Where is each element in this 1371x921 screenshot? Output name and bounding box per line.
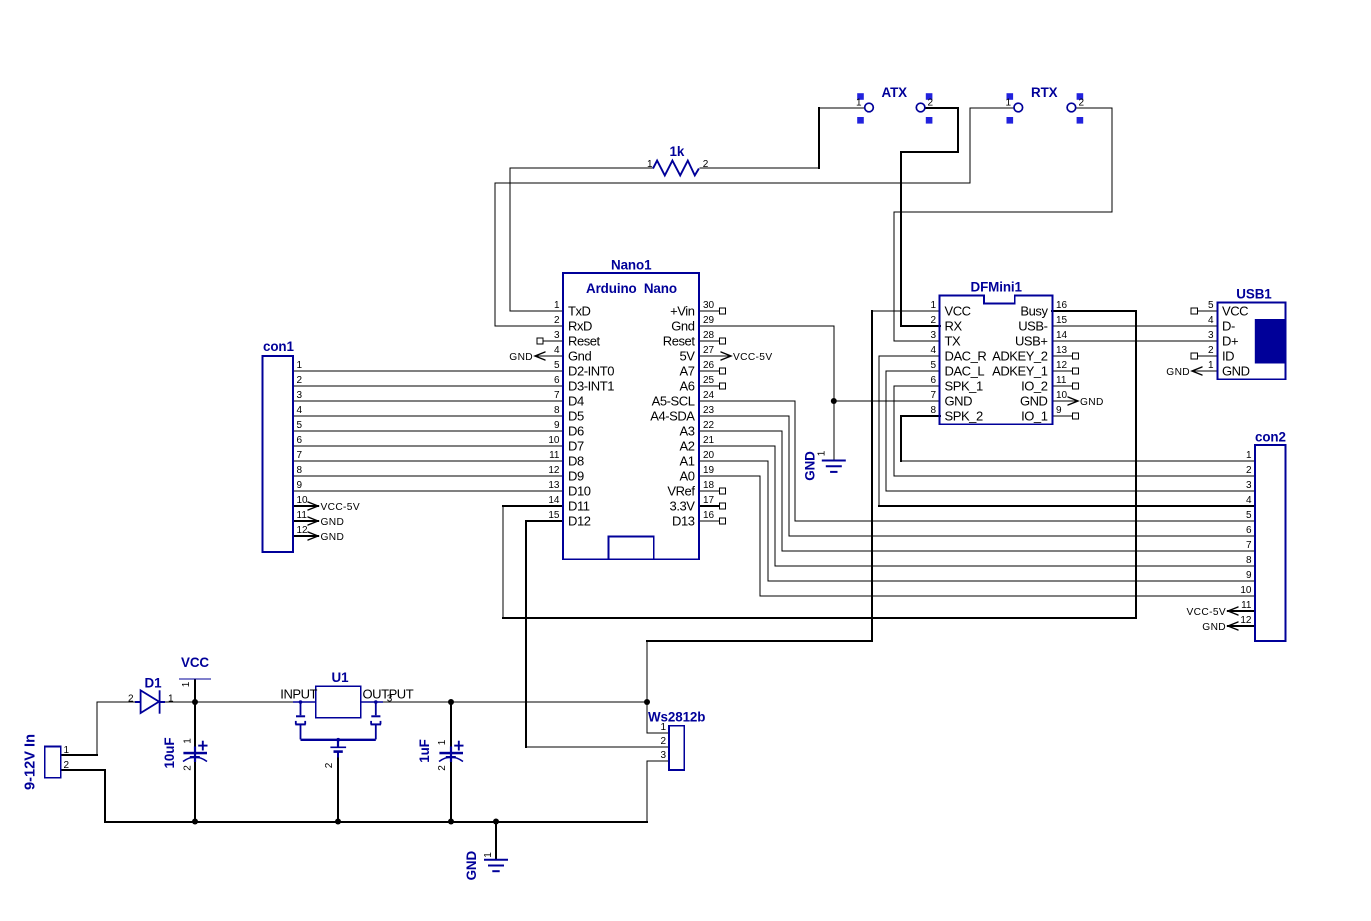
svg-text:GND: GND — [1202, 622, 1226, 633]
svg-text:DAC_R: DAC_R — [945, 349, 987, 364]
svg-text:7: 7 — [554, 390, 560, 401]
svg-text:2: 2 — [128, 693, 134, 704]
svg-text:11: 11 — [297, 510, 308, 521]
svg-text:2: 2 — [297, 375, 303, 386]
svg-text:VRef: VRef — [667, 484, 695, 499]
svg-text:10: 10 — [1240, 585, 1252, 596]
svg-text:SPK_1: SPK_1 — [945, 379, 983, 394]
svg-text:10uF: 10uF — [162, 738, 177, 769]
svg-text:10: 10 — [297, 495, 309, 506]
svg-text:USB+: USB+ — [1015, 334, 1048, 349]
svg-text:DFMini1: DFMini1 — [971, 280, 1023, 295]
svg-text:13: 13 — [1056, 345, 1068, 356]
svg-text:10: 10 — [1056, 390, 1068, 401]
svg-text:6: 6 — [554, 375, 560, 386]
svg-text:5: 5 — [1246, 510, 1252, 521]
svg-text:DAC_L: DAC_L — [945, 364, 985, 379]
svg-text:5: 5 — [930, 360, 936, 371]
svg-text:A1: A1 — [679, 454, 694, 469]
svg-text:2: 2 — [183, 765, 194, 771]
svg-text:25: 25 — [703, 375, 715, 386]
svg-text:GND: GND — [321, 517, 345, 528]
svg-text:Ws2812b: Ws2812b — [648, 710, 705, 725]
svg-text:1: 1 — [1246, 450, 1252, 461]
svg-text:15: 15 — [1056, 315, 1068, 326]
svg-text:28: 28 — [703, 330, 715, 341]
svg-text:3: 3 — [1208, 330, 1214, 341]
svg-text:1: 1 — [437, 739, 448, 745]
svg-text:GND: GND — [1020, 394, 1048, 409]
svg-text:20: 20 — [703, 450, 715, 461]
svg-text:GND: GND — [1080, 397, 1104, 408]
svg-text:con2: con2 — [1255, 430, 1286, 445]
svg-text:21: 21 — [703, 435, 715, 446]
svg-text:GND: GND — [321, 532, 345, 543]
svg-text:2: 2 — [928, 98, 934, 109]
svg-text:1: 1 — [297, 360, 303, 371]
svg-text:con1: con1 — [263, 339, 295, 354]
svg-text:1: 1 — [64, 745, 70, 756]
svg-text:1: 1 — [817, 450, 828, 456]
svg-text:22: 22 — [703, 420, 715, 431]
svg-text:ADKEY_1: ADKEY_1 — [992, 364, 1048, 379]
svg-text:VCC: VCC — [945, 304, 971, 319]
svg-text:D2-INT0: D2-INT0 — [568, 364, 614, 379]
svg-text:RxD: RxD — [568, 319, 592, 334]
svg-text:6: 6 — [930, 375, 936, 386]
svg-text:3: 3 — [554, 330, 560, 341]
svg-text:D3-INT1: D3-INT1 — [568, 379, 614, 394]
svg-text:1: 1 — [181, 681, 192, 687]
svg-text:8: 8 — [297, 465, 303, 476]
svg-text:3: 3 — [297, 390, 303, 401]
svg-text:1: 1 — [1005, 98, 1011, 109]
svg-text:14: 14 — [1056, 330, 1068, 341]
svg-text:ID: ID — [1222, 349, 1234, 364]
svg-text:D1: D1 — [145, 676, 163, 691]
svg-text:26: 26 — [703, 360, 715, 371]
svg-text:A2: A2 — [679, 439, 694, 454]
svg-text:4: 4 — [930, 345, 936, 356]
svg-text:8: 8 — [930, 405, 936, 416]
svg-text:1uF: 1uF — [417, 739, 432, 763]
svg-text:7: 7 — [930, 390, 936, 401]
svg-text:1: 1 — [1208, 360, 1214, 371]
svg-text:3: 3 — [387, 694, 393, 705]
svg-text:27: 27 — [703, 345, 715, 356]
svg-text:1: 1 — [856, 98, 862, 109]
svg-text:GND: GND — [1222, 364, 1250, 379]
svg-text:GND: GND — [464, 851, 479, 881]
svg-text:2: 2 — [64, 760, 70, 771]
svg-text:Gnd: Gnd — [671, 319, 694, 334]
svg-text:11: 11 — [1056, 375, 1067, 386]
svg-text:1: 1 — [647, 159, 653, 170]
svg-text:D13: D13 — [672, 514, 695, 529]
svg-text:3.3V: 3.3V — [670, 499, 696, 514]
svg-text:VCC-5V: VCC-5V — [321, 502, 360, 513]
svg-text:29: 29 — [703, 315, 715, 326]
svg-text:5: 5 — [297, 420, 303, 431]
svg-text:12: 12 — [548, 465, 560, 476]
svg-text:4: 4 — [1246, 495, 1252, 506]
svg-text:2: 2 — [930, 315, 936, 326]
svg-text:1: 1 — [483, 852, 494, 858]
svg-text:IO_1: IO_1 — [1021, 409, 1048, 424]
svg-text:VCC: VCC — [1222, 304, 1248, 319]
svg-text:4: 4 — [554, 345, 560, 356]
svg-text:D11: D11 — [568, 499, 590, 514]
svg-text:16: 16 — [1056, 300, 1068, 311]
svg-text:ADKEY_2: ADKEY_2 — [992, 349, 1048, 364]
svg-text:3: 3 — [930, 330, 936, 341]
svg-text:Reset: Reset — [663, 334, 696, 349]
svg-text:23: 23 — [703, 405, 715, 416]
svg-text:12: 12 — [1240, 615, 1252, 626]
svg-text:D-: D- — [1222, 319, 1235, 334]
svg-text:RTX: RTX — [1031, 85, 1058, 100]
svg-text:19: 19 — [703, 465, 715, 476]
svg-text:1: 1 — [554, 300, 560, 311]
svg-text:Reset: Reset — [568, 334, 601, 349]
svg-text:D4: D4 — [568, 394, 584, 409]
svg-text:TxD: TxD — [568, 304, 591, 319]
svg-text:GND: GND — [509, 352, 533, 363]
svg-text:15: 15 — [548, 510, 560, 521]
svg-text:2: 2 — [1208, 345, 1214, 356]
svg-text:D12: D12 — [568, 514, 591, 529]
svg-text:TX: TX — [945, 334, 961, 349]
svg-text:18: 18 — [703, 480, 715, 491]
svg-text:2: 2 — [1246, 465, 1252, 476]
svg-text:7: 7 — [1246, 540, 1252, 551]
svg-text:Nano1: Nano1 — [611, 258, 652, 273]
svg-text:Gnd: Gnd — [568, 349, 591, 364]
svg-text:D9: D9 — [568, 469, 584, 484]
svg-text:3: 3 — [1246, 480, 1252, 491]
svg-text:USB-: USB- — [1018, 319, 1047, 334]
svg-text:SPK_2: SPK_2 — [945, 409, 983, 424]
svg-text:9: 9 — [297, 480, 303, 491]
svg-text:A0: A0 — [679, 469, 694, 484]
svg-text:1k: 1k — [670, 144, 685, 159]
svg-text:D10: D10 — [568, 484, 591, 499]
svg-text:U1: U1 — [332, 670, 350, 685]
svg-text:1: 1 — [168, 693, 174, 704]
svg-text:Busy: Busy — [1020, 304, 1048, 319]
svg-text:2: 2 — [660, 736, 666, 747]
svg-text:9: 9 — [1056, 405, 1062, 416]
svg-text:24: 24 — [703, 390, 715, 401]
svg-text:A6: A6 — [679, 379, 694, 394]
svg-text:5V: 5V — [679, 349, 695, 364]
svg-text:2: 2 — [324, 762, 335, 768]
svg-text:GND: GND — [945, 394, 973, 409]
svg-text:VCC: VCC — [181, 655, 209, 670]
svg-text:14: 14 — [548, 495, 560, 506]
svg-text:2: 2 — [437, 765, 448, 771]
svg-text:D8: D8 — [568, 454, 584, 469]
svg-text:11: 11 — [1241, 600, 1252, 611]
svg-text:12: 12 — [297, 525, 309, 536]
svg-text:3: 3 — [660, 750, 666, 761]
svg-text:A7: A7 — [679, 364, 694, 379]
svg-text:16: 16 — [703, 510, 715, 521]
svg-text:USB1: USB1 — [1236, 287, 1272, 302]
svg-text:12: 12 — [1056, 360, 1068, 371]
svg-text:9-12V In: 9-12V In — [23, 734, 39, 790]
svg-text:2: 2 — [1079, 98, 1085, 109]
svg-text:1: 1 — [183, 738, 194, 744]
svg-text:9: 9 — [1246, 570, 1252, 581]
svg-text:+Vin: +Vin — [670, 304, 695, 319]
svg-text:ATX: ATX — [882, 85, 908, 100]
svg-text:2: 2 — [554, 315, 560, 326]
svg-text:VCC-5V: VCC-5V — [1187, 607, 1226, 618]
svg-text:1: 1 — [930, 300, 936, 311]
svg-text:10: 10 — [548, 435, 560, 446]
svg-text:A3: A3 — [679, 424, 694, 439]
svg-text:A5-SCL: A5-SCL — [652, 394, 695, 409]
svg-text:INPUT: INPUT — [280, 687, 317, 702]
svg-text:4: 4 — [1208, 315, 1214, 326]
svg-text:30: 30 — [703, 300, 715, 311]
svg-text:IO_2: IO_2 — [1021, 379, 1048, 394]
svg-text:D5: D5 — [568, 409, 584, 424]
svg-text:17: 17 — [703, 495, 715, 506]
svg-text:D+: D+ — [1222, 334, 1238, 349]
svg-text:A4-SDA: A4-SDA — [650, 409, 695, 424]
svg-text:2: 2 — [703, 159, 709, 170]
svg-text:5: 5 — [1208, 300, 1214, 311]
svg-text:RX: RX — [945, 319, 963, 334]
svg-text:5: 5 — [554, 360, 560, 371]
svg-text:8: 8 — [554, 405, 560, 416]
svg-text:4: 4 — [297, 405, 303, 416]
svg-text:D7: D7 — [568, 439, 584, 454]
svg-text:13: 13 — [548, 480, 560, 491]
svg-text:11: 11 — [549, 450, 560, 461]
svg-text:6: 6 — [1246, 525, 1252, 536]
svg-text:GND: GND — [1166, 367, 1190, 378]
svg-text:7: 7 — [297, 450, 303, 461]
svg-text:Arduino Nano: Arduino Nano — [586, 281, 677, 296]
svg-text:D6: D6 — [568, 424, 584, 439]
svg-text:VCC-5V: VCC-5V — [733, 352, 772, 363]
svg-text:GND: GND — [803, 451, 818, 481]
svg-text:9: 9 — [554, 420, 560, 431]
svg-text:6: 6 — [297, 435, 303, 446]
svg-text:8: 8 — [1246, 555, 1252, 566]
